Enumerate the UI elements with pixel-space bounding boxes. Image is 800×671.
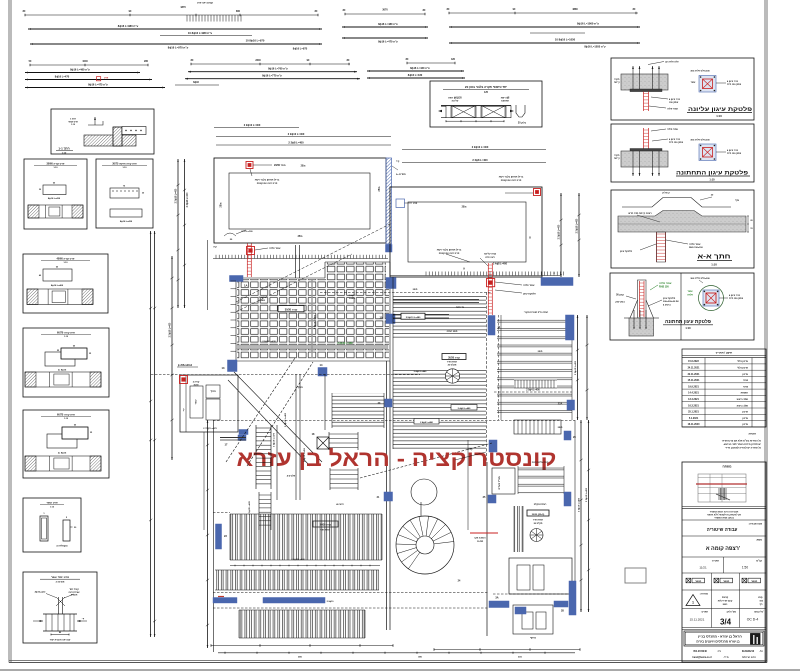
svg-text:8ϕ16 L=760 ע"ת: 8ϕ16 L=760 ע"ת <box>268 67 288 71</box>
company box <box>684 631 764 646</box>
svg-text:עם ראה תוכנית יסוד: עם ראה תוכנית יסוד <box>50 640 71 642</box>
svg-text:שלב ביצוע: שלב ביצוע <box>737 404 748 407</box>
svg-text:2 קורה: 2 קורה <box>193 381 200 384</box>
blue L column <box>569 581 576 615</box>
rebar schedule group 1 right <box>449 12 638 14</box>
svg-text:16.11.2020: 16.11.2020 <box>688 423 701 426</box>
svg-text:עדכון כללי: עדכון כללי <box>737 367 748 370</box>
circle column symbol <box>445 369 459 383</box>
page frame right border <box>764 0 766 663</box>
svg-text::נושא: :נושא <box>756 539 762 542</box>
svg-text:30/30 (25+5): 30/30 (25+5) <box>532 514 545 516</box>
steel column (red) <box>657 232 666 262</box>
gray beam vertical through waffle <box>311 280 313 358</box>
svg-text:8ϕ16 L=470: 8ϕ16 L=470 <box>55 74 70 78</box>
svg-text:מ/25: מ/25 <box>538 351 543 353</box>
svg-text:פרט קורה 60/70: פרט קורה 60/70 <box>57 331 75 334</box>
svg-text:פלט פלדה 300x300: פלט פלדה 300x300 <box>690 70 710 73</box>
svg-text:עדף: עדף <box>735 199 740 202</box>
svg-text:פלטקת עיגון תחתונה: פלטקת עיגון תחתונה <box>665 319 711 325</box>
svg-text:8ϕ16 L=975: 8ϕ16 L=975 <box>293 46 308 50</box>
title block outer <box>682 462 766 662</box>
rib section drawing <box>441 105 511 107</box>
key map stairs blob <box>718 488 720 500</box>
svg-text:עמוד פלדה: עמוד פלדה <box>667 107 678 110</box>
svg-text:3A: 3A <box>495 597 498 600</box>
svg-text:פרט: פרט <box>104 78 109 80</box>
scan bottom edge <box>0 669 800 671</box>
svg-text:עומק 150 מ"מ: עומק 150 מ"מ <box>727 83 742 86</box>
svg-text:הראל בן עזרא - מהנדס בניין: הראל בן עזרא - מהנדס בניין <box>698 634 742 638</box>
beam label boxes in rib region <box>451 405 477 411</box>
svg-text:10-סמ: 10-סמ <box>477 541 484 543</box>
svg-text:40 רוחב: 40 רוחב <box>336 503 344 506</box>
svg-text:860: 860 <box>236 10 241 13</box>
svg-text:עדכון כללי: עדכון כללי <box>737 360 748 363</box>
blue wall top right <box>541 278 573 286</box>
svg-text:פרט קורה חדשה 30/75: פרט קורה חדשה 30/75 <box>112 162 137 165</box>
waffle slab region upper <box>326 263 386 280</box>
svg-text:15.11.2021: 15.11.2021 <box>688 379 701 382</box>
svg-text:1:10: 1:10 <box>716 114 722 118</box>
svg-text:פרט: פרט <box>413 203 418 205</box>
revision row 22.11.2021 <box>682 376 766 378</box>
svg-text:פלט פלדה 300x300: פלט פלדה 300x300 <box>690 277 710 280</box>
svg-text:2 8ϕ/10 L=480: 2 8ϕ/10 L=480 <box>406 316 421 319</box>
svg-text:פלטקת עיגון: פלטקת עיגון <box>620 250 633 253</box>
svg-text:פלטקת עיגון עליונה: פלטקת עיגון עליונה <box>688 106 752 113</box>
svg-text:1:10: 1:10 <box>711 262 717 266</box>
svg-text:קבצים: קבצים <box>722 596 729 599</box>
svg-text::מהדורה: :מהדורה <box>700 593 709 595</box>
ribbed slab region A <box>393 296 486 340</box>
svg-text:2 2ϕ10 L=460: 2 2ϕ10 L=460 <box>284 412 287 427</box>
svg-text:קורה 30/30: קורה 30/30 <box>448 356 460 359</box>
svg-text:16.3.2021: 16.3.2021 <box>688 404 699 407</box>
svg-text:2 2ϕ10 L=400: 2 2ϕ10 L=400 <box>313 314 316 329</box>
blue column 26 <box>564 431 571 440</box>
svg-text:קנ"מ: קנ"מ <box>756 559 762 562</box>
date / sheet no row <box>711 609 713 628</box>
red detail marker <box>534 189 541 196</box>
long dashed diagonal to column <box>360 443 492 478</box>
svg-text:רצפה קומה א': רצפה קומה א' <box>706 546 740 552</box>
callout lines above top-right slab <box>402 149 546 151</box>
svg-text:עמוד: עמוד <box>691 82 696 84</box>
svg-text:מ/25 רצפה: מ/25 רצפה <box>447 331 458 333</box>
anchor bolts in footing <box>633 310 635 328</box>
svg-text:תקרה: תקרה <box>614 78 620 81</box>
diagonal dashed construction lines <box>236 224 390 302</box>
blue column 23 <box>216 524 222 549</box>
svg-text:פלט פלדה עב: פלט פלדה עב <box>665 61 679 64</box>
svg-text:קורת יסוד: קורת יסוד <box>69 588 79 591</box>
vertical dims right of top-right slab <box>560 193 562 277</box>
rebar schedule group 2 left: dimension line <box>30 64 148 66</box>
detail box: footing detail <box>23 572 97 643</box>
svg-text:L=400: L=400 <box>349 297 356 300</box>
svg-text:עדכון: עדכון <box>742 423 748 426</box>
top-left slab inner <box>229 173 370 229</box>
svg-text:מפתח: מפתח <box>723 464 733 468</box>
svg-text:רשת ϕ8@20: רשת ϕ8@20 <box>448 98 462 100</box>
svg-text:קו עליון: קו עליון <box>662 192 670 195</box>
detail box: beam detail E <box>23 410 109 478</box>
svg-text:8ϕ16 L=1060 ע"ת: 8ϕ16 L=1060 ע"ת <box>577 22 599 26</box>
svg-text:420: 420 <box>451 58 456 61</box>
revision row 14.4.2021 <box>682 394 766 396</box>
svg-text:2 2ϕ10 L=400: 2 2ϕ10 L=400 <box>168 322 171 337</box>
rooms center bottom <box>509 558 572 594</box>
svg-text:עומק 150: עומק 150 <box>669 101 679 104</box>
rib patch left of wall <box>332 393 384 428</box>
svg-text:14.4.2021: 14.4.2021 <box>688 392 699 395</box>
revision row 24.11.2021 <box>682 369 766 371</box>
svg-text:5.1.2021: 5.1.2021 <box>689 417 699 420</box>
svg-text:קובץ אדריכלות: קובץ אדריכלות <box>718 600 733 603</box>
detail box: upper anchor plate <box>611 58 754 120</box>
blue anchor at left of slab <box>396 199 405 208</box>
svg-text:מהלך: מהלך <box>210 390 216 393</box>
red detail marker <box>247 247 255 255</box>
company logo <box>751 634 761 645</box>
right vertical dims bottom <box>580 420 582 612</box>
scale/date cells <box>723 557 725 573</box>
stamp checkbox <box>714 578 719 583</box>
rebar g2 bar3 <box>25 87 165 89</box>
small ribbed box top <box>514 420 561 434</box>
svg-text:4 שלבים: 4 שלבים <box>287 475 296 478</box>
steel column (red) <box>247 244 251 278</box>
stamp checkbox <box>742 578 747 583</box>
bottom rib band 3 <box>239 610 365 638</box>
svg-text:עדכון: עדכון <box>742 373 748 376</box>
svg-text:2 4ϕ8 L=480: 2 4ϕ8 L=480 <box>420 421 434 424</box>
long vertical dimension pair <box>150 231 152 637</box>
svg-text:מוס 2:10: מוס 2:10 <box>56 581 65 583</box>
svg-text:הנמכה מקו: הנמכה מקו <box>475 537 486 540</box>
svg-text:2 4ϕ8 L=400: 2 4ϕ8 L=400 <box>493 263 508 266</box>
svg-text:2 2ϕ10 L=400: 2 2ϕ10 L=400 <box>557 224 560 239</box>
svg-text:4880: 4880 <box>572 8 578 11</box>
steel column (red) <box>644 128 649 150</box>
svg-text:בטון יצוק: בטון יצוק <box>615 301 625 304</box>
revision row 19.9.2021 <box>682 388 766 390</box>
stair treads lower <box>329 468 331 490</box>
svg-text:ϕ 20ע5x20x2: ϕ 20ע5x20x2 <box>178 365 193 367</box>
svg-text:פרט יסוד עובר: פרט יסוד עובר <box>51 575 69 579</box>
svg-text:2 2ϕ10 L=400: 2 2ϕ10 L=400 <box>472 145 489 149</box>
svg-text:10 8ϕ16 L=1050: 10 8ϕ16 L=1050 <box>555 38 576 42</box>
blue hatched strip between slabs <box>386 158 392 244</box>
svg-text:22.11.2021: 22.11.2021 <box>688 373 701 376</box>
svg-text:8ϕ16 L=420 ע"ת: 8ϕ16 L=420 ע"ת <box>410 66 430 70</box>
svg-text:מ/25: מ/25 <box>558 427 563 429</box>
svg-text:10 8ϕ16 L=980 ע"ת: 10 8ϕ16 L=980 ע"ת <box>188 31 213 35</box>
svg-text:פלטקת עיגון התחתונה: פלטקת עיגון התחתונה <box>676 169 749 176</box>
svg-text::גליון מס': :גליון מס' <box>754 611 764 614</box>
center boundary lines <box>574 420 576 612</box>
vert dim pair left of slab <box>177 159 179 308</box>
svg-text:יתד טיפוסי תקרה בלבני בטון 20: יתד טיפוסי תקרה בלבני בטון 20 <box>465 85 507 89</box>
lower ladder <box>258 492 260 530</box>
blue column right of waffle <box>386 278 396 289</box>
bottom rib band 1 <box>230 514 382 560</box>
svg-text:פלטקת עיגון: פלטקת עיגון <box>523 292 536 295</box>
plan mini detail 2 <box>699 144 716 161</box>
svg-text:פלטקת עיגון: פלטקת עיגון <box>663 297 676 300</box>
svg-text:תאריך: תאריך <box>712 559 719 562</box>
circle column symbol center <box>530 529 543 542</box>
detail box: column detail <box>23 498 81 552</box>
spiral connector line <box>420 502 422 516</box>
svg-text:8ϕ16 L=475 ע"ת: 8ϕ16 L=475 ע"ת <box>88 82 108 86</box>
red detail marker <box>487 279 495 287</box>
detail box: bottom anchor plate <box>610 273 754 340</box>
beam label box <box>442 354 466 360</box>
svg-text:תוספת: תוספת <box>741 392 749 395</box>
callout lines above top-left slab <box>214 127 299 129</box>
blue bar at stair head <box>239 430 248 435</box>
vertical line x207 upper <box>207 240 209 310</box>
svg-text:2 2ϕ10 L=455: 2 2ϕ10 L=455 <box>303 447 306 462</box>
svg-text:עומק 150 מ"מ: עומק 150 מ"מ <box>727 152 742 155</box>
svg-text:פרט ראה עם קוצים: פרט ראה עם קוצים <box>501 179 522 182</box>
blue column 20 on wall <box>385 399 393 407</box>
svg-text:עמוד פלדה: עמוד פלדה <box>269 247 281 250</box>
svg-text:19.9.2021: 19.9.2021 <box>688 385 699 388</box>
svg-text:8ϕ16 L=970 ע"ת: 8ϕ16 L=970 ע"ת <box>168 45 189 49</box>
hump profile line <box>622 198 731 208</box>
svg-text:שינוי: שינוי <box>743 385 748 388</box>
svg-text:2021: 2021 <box>723 604 729 606</box>
svg-text:ממ"ד מעלית: ממ"ד מעלית <box>498 476 501 489</box>
red detail marker <box>246 162 253 169</box>
svg-text:1 ראה: 1 ראה <box>70 119 77 121</box>
svg-text:2 2ϕ8 L=400: 2 2ϕ8 L=400 <box>288 141 304 145</box>
rebar schedule group 2 right <box>407 62 455 64</box>
svg-text:2x מסדים: 2x מסדים <box>396 174 406 176</box>
svg-text:2 2ϕ10: 2 2ϕ10 <box>349 295 357 297</box>
svg-text:פרט עמוד: פרט עמוד <box>46 501 58 504</box>
blue bar long bottom <box>263 598 325 604</box>
svg-text:2 2ϕ10 L=400: 2 2ϕ10 L=400 <box>574 360 577 375</box>
svg-text::תאריך: :תאריך <box>701 612 709 614</box>
wall lines below slab <box>295 245 297 278</box>
blue column below red <box>488 316 495 336</box>
svg-text:8ϕ16 L=480 ע"ת: 8ϕ16 L=480 ע"ת <box>378 22 398 26</box>
revision row 13.4.2021 <box>682 401 766 403</box>
svg-text:2 2ϕ10 L=400: 2 2ϕ10 L=400 <box>174 188 177 203</box>
svg-text::מייל: :מייל <box>724 656 729 659</box>
svg-text:בלוק 20: בלוק 20 <box>518 122 527 125</box>
svg-text:פרט קורה 60/75: פרט קורה 60/75 <box>57 413 75 416</box>
blue column 22A <box>567 400 575 410</box>
svg-text:ברגי עיגון 4: ברגי עיגון 4 <box>727 149 739 152</box>
top-right slab inner <box>408 202 526 262</box>
svg-text:עד תחת: עד תחת <box>456 307 465 309</box>
svg-text::טל: :טל <box>759 650 763 653</box>
svg-text:1870: 1870 <box>180 6 186 9</box>
vertical dim line x207 <box>207 420 209 648</box>
svg-text::מס' גליון: :מס' גליון <box>726 611 736 614</box>
svg-text:8ϕ16 L=460 ע"ת: 8ϕ16 L=460 ע"ת <box>70 67 90 71</box>
blue column near spiral <box>489 440 497 452</box>
svg-text:רשת ϕ8: רשת ϕ8 <box>501 98 510 100</box>
svg-text:2 2ϕ10 L=400: 2 2ϕ10 L=400 <box>288 132 305 136</box>
svg-text:4 ברגים: 4 ברגים <box>663 303 671 306</box>
gray beam band across waffle <box>236 345 388 349</box>
long mid horizontal line <box>390 275 560 277</box>
beam label box <box>401 313 425 319</box>
stair flight ladder 1 <box>255 425 257 489</box>
stair shaft walls <box>276 425 278 500</box>
svg-text:2 2ϕ10: 2 2ϕ10 <box>327 601 335 603</box>
red reinforcement line <box>470 532 498 534</box>
svg-text:RHS 150x150: RHS 150x150 <box>689 247 704 249</box>
svg-text:פרט עמוד: פרט עמוד <box>68 121 78 123</box>
svg-text:2x 8ϕ16: 2x 8ϕ16 <box>58 453 67 455</box>
revision row 25.1.2021 <box>682 413 766 415</box>
red detail marker <box>180 376 188 384</box>
concrete slab <box>621 151 668 167</box>
svg-text:שלב ביצוע: שלב ביצוע <box>737 398 748 401</box>
svg-text:עומק 150 מ"מ: עומק 150 מ"מ <box>729 297 744 300</box>
stamp checkbox <box>686 578 691 583</box>
blue column 20B on wall <box>384 492 393 501</box>
svg-text:קוטן 50: קוטן 50 <box>616 294 624 297</box>
blue column right edge <box>566 315 575 340</box>
svg-text:1:10: 1:10 <box>62 152 67 154</box>
bottom dim line 3 <box>218 652 575 654</box>
detail box: section A-A <box>611 190 754 268</box>
svg-text:1: 1 <box>692 600 694 604</box>
blue column at lobby <box>488 495 496 503</box>
svg-text:מקלט 20: מקלט 20 <box>534 522 543 525</box>
page frame bottom border <box>9 660 767 662</box>
plan mini detail: plate with bolts <box>699 76 716 93</box>
balloon detail <box>699 286 724 311</box>
svg-text:8ϕ16 L=430: 8ϕ16 L=430 <box>408 73 423 77</box>
svg-text:ברגי עיגון 4: ברגי עיגון 4 <box>669 98 681 101</box>
waffle boundary lines <box>235 278 237 361</box>
detail box: beam detail A <box>24 159 87 229</box>
svg-text:8ϕ16 L=980 ע"ת: 8ϕ16 L=980 ע"ת <box>118 24 139 28</box>
svg-text:קורה עליונה: קורה עליונה <box>484 253 497 256</box>
blue column 13 <box>228 360 238 372</box>
svg-text:קורה: קורה <box>468 448 473 451</box>
svg-text::שם העבודה: :שם העבודה <box>749 522 762 525</box>
steel column (red) <box>644 92 649 112</box>
svg-text:25.1.2021: 25.1.2021 <box>688 411 699 414</box>
slab corner detail <box>84 135 136 146</box>
stamps row <box>711 573 713 590</box>
svg-text:1:50: 1:50 <box>742 565 748 569</box>
svg-text:קיימת: קיימת <box>614 81 620 84</box>
revision row 16.11.2020 <box>682 426 766 428</box>
svg-text:מרתף: מרתף <box>530 637 536 640</box>
svg-text:09-8943210: 09-8943210 <box>742 650 755 653</box>
svg-text:קונסטרוקציה - הראל בן עזרא: קונסטרוקציה - הראל בן עזרא <box>237 446 557 471</box>
svg-text:עליונה: עליונה <box>452 100 459 103</box>
svg-text:8ϕ16 L=470 ע"ת: 8ϕ16 L=470 ע"ת <box>378 40 398 44</box>
svg-text:-כל סתירה יש להודיע למתכנן מיי: -כל סתירה יש להודיע למתכנן מייד <box>725 446 762 449</box>
svg-text:24.11.2021: 24.11.2021 <box>688 367 701 370</box>
steel plate <box>630 149 662 152</box>
beam label box <box>278 306 304 312</box>
svg-text:15.6.2022: 15.6.2022 <box>688 360 699 363</box>
svg-text:280: 280 <box>144 60 149 63</box>
svg-text:11/21: 11/21 <box>699 565 707 569</box>
rebar schedule group 1 middle <box>345 13 425 15</box>
svg-text:עוברת ראה: עוברת ראה <box>68 592 80 594</box>
rotated room labels <box>492 468 515 494</box>
svg-text:4ϕ16+ϕ12: 4ϕ16+ϕ12 <box>35 591 46 594</box>
svg-text:125: 125 <box>484 91 489 94</box>
svg-text:300x300x20 עם: 300x300x20 עם <box>663 301 679 303</box>
vertical dims right of region B <box>577 315 579 420</box>
svg-text:מ/25: מ/25 <box>462 207 467 209</box>
svg-text:קבצ:: קבצ: <box>758 596 763 599</box>
dashed lines <box>320 292 492 294</box>
lone empty rectangle <box>625 568 646 583</box>
svg-text:דף:: דף: <box>760 603 764 606</box>
detail box: typical rib section <box>430 81 542 127</box>
dashed boundaries bottom <box>213 512 230 514</box>
svg-text:מ/25: מ/25 <box>301 166 306 168</box>
steel column (red) <box>640 281 645 317</box>
svg-text:בן עזרא מהנדסים ויועצים בע"מ: בן עזרא מהנדסים ויועצים בע"מ <box>696 640 739 644</box>
waffle row ticks left edge <box>231 280 237 282</box>
svg-text:רצפת מקלט: רצפת מקלט <box>534 503 547 506</box>
svg-text:מ/25: מ/25 <box>298 236 303 238</box>
detail box: section 1-1 <box>51 109 154 154</box>
svg-text::נייד: :נייד <box>717 651 721 653</box>
detail box: beam detail B <box>96 159 153 228</box>
svg-text:עמוד פלדה: עמוד פלדה <box>659 281 672 285</box>
svg-text:עבודה שיטוריה: עבודה שיטוריה <box>707 527 738 532</box>
cross braced column box <box>317 437 329 449</box>
svg-text:ברגי עיגון 4: ברגי עיגון 4 <box>669 138 681 141</box>
svg-text:פלט פלדה 300x300: פלט פלדה 300x300 <box>690 139 710 142</box>
U channel profile <box>516 105 525 117</box>
rebar g2 bar1 <box>25 72 140 74</box>
svg-text:פרט ראה עם קוצים: פרט ראה עם קוצים <box>257 182 278 185</box>
svg-text:תיקון / תאריך: תיקון / תאריך <box>716 350 733 354</box>
spiral stair <box>396 516 454 574</box>
svg-text:מ/25: מ/25 <box>413 289 418 291</box>
rebar schedule group 2 middle <box>191 63 350 65</box>
blue bars bottom center <box>489 601 509 608</box>
detail box: beam detail C <box>23 254 108 313</box>
band separators <box>230 565 380 567</box>
horizontal rib rows center <box>518 466 564 494</box>
svg-text:13.4.2021: 13.4.2021 <box>688 398 699 401</box>
central wall double line <box>386 361 388 630</box>
svg-text:2 2ϕ10 L=400: 2 2ϕ10 L=400 <box>585 487 588 502</box>
svg-text::הערה: :הערה <box>748 432 756 436</box>
beams double lines <box>393 299 479 301</box>
anchor bolts <box>632 66 634 89</box>
svg-text:פרט ראה עם קוצים: פרט ראה עם קוצים <box>439 252 460 255</box>
spiral stair upper circle <box>411 479 437 505</box>
svg-text:2 2ϕ10 L=430: 2 2ϕ10 L=430 <box>262 340 276 343</box>
blue column 1A <box>230 276 244 282</box>
svg-text:15.11.2021: 15.11.2021 <box>690 618 705 622</box>
svg-text:8ϕ16 L=460: 8ϕ16 L=460 <box>51 284 64 287</box>
revision row 15.6.2022 <box>682 363 766 365</box>
svg-text:פלדה: פלדה <box>687 293 693 296</box>
